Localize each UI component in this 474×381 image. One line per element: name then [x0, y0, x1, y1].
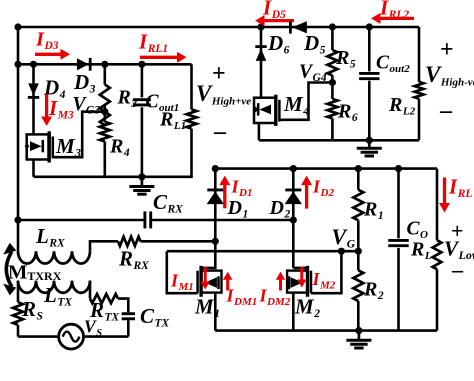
- node left frame / D3 rail: [14, 61, 21, 68]
- wire R6 to bus: [331, 118, 334, 140]
- node D4 branch: [30, 61, 37, 68]
- mosfet M2 body box: [287, 271, 307, 293]
- node R1 top: [355, 165, 362, 172]
- wire low bottom bus: [215, 329, 437, 332]
- node D6 top: [257, 23, 264, 30]
- wire M1 gate loop: [167, 251, 198, 293]
- wire RS to bottom: [17, 325, 20, 337]
- ground symbol low: [358, 331, 361, 340]
- node ground junction TR: [366, 137, 373, 144]
- wire TX bottom right: [84, 335, 129, 338]
- wire CRX rail left: [18, 219, 144, 222]
- mosfet M2 body diode: [291, 277, 303, 288]
- mosfet M2 channel bar: [306, 266, 309, 297]
- node left frame / CRX rail: [14, 216, 21, 223]
- resistor RL1: [187, 109, 197, 128]
- resistor RS: [13, 302, 23, 325]
- node Co top: [395, 165, 402, 172]
- wire LTX right to RTX: [89, 281, 92, 299]
- mosfet M1 drain jog: [201, 267, 215, 270]
- wire low top bus: [215, 167, 437, 170]
- mosfet M4 bulk mark: [253, 107, 258, 113]
- resistor R2: [353, 270, 363, 301]
- wire R3 upper lead: [104, 64, 107, 84]
- mosfet M4 body diode: [259, 105, 271, 115]
- mosfet M3 body diode: [30, 141, 42, 151]
- current arrow IM3: [45, 94, 48, 119]
- wire D2 leg upper: [292, 169, 295, 268]
- current arrow IDM1 up: [226, 278, 229, 291]
- node D1 top: [212, 165, 219, 172]
- wire D6 branch: [260, 27, 263, 99]
- wire M2 gate loop: [311, 251, 341, 293]
- svg-text:+: +: [212, 61, 226, 87]
- source Vs: [59, 324, 84, 349]
- inductor LTX: [18, 281, 90, 293]
- diode D4: [28, 83, 39, 95]
- wire Cout1 lower: [141, 107, 144, 177]
- resistor R3: [100, 85, 110, 126]
- mosfet M4 body box: [254, 98, 276, 123]
- capacitor Cout1: [133, 98, 151, 101]
- wire RL leg upper: [436, 169, 439, 241]
- svg-text:–: –: [439, 98, 453, 124]
- svg-text:–: –: [451, 257, 464, 282]
- mosfet M3 channel bar: [48, 131, 51, 162]
- node Cout1 top: [138, 61, 145, 68]
- wire R3-R4 link: [104, 105, 107, 122]
- resistor R4: [100, 122, 110, 142]
- node VG (R1-R2 junction): [355, 248, 362, 255]
- resistor R6: [327, 99, 337, 118]
- mosfet M2 gate bar: [310, 271, 313, 294]
- current arrow ID2: [305, 183, 308, 209]
- wire M2 source: [292, 293, 295, 331]
- resistor RTX: [90, 294, 118, 303]
- wire RL1 upper: [190, 64, 193, 109]
- node VG4 (R5-R6 junction): [329, 79, 336, 86]
- resistor R1: [353, 190, 363, 221]
- wire TX bottom left: [18, 335, 59, 338]
- mosfet M1 body box: [201, 271, 221, 293]
- wire LTX left to RS: [17, 281, 20, 303]
- wire D3 rail: [18, 63, 192, 66]
- capacitor CRX: [143, 211, 146, 228]
- node M2 gate tap: [338, 248, 345, 255]
- wire D1 leg upper: [214, 169, 217, 270]
- wire R1-R2 link: [357, 220, 360, 270]
- wire Co upper: [397, 169, 400, 239]
- wire RL2 upper: [418, 27, 421, 82]
- diode D1: [207, 188, 223, 191]
- node ground junction low: [355, 327, 362, 334]
- capacitor Co: [388, 239, 408, 242]
- ground symbol TL: [141, 177, 144, 186]
- node R3 top: [101, 61, 108, 68]
- mosfet M1 gate bar: [196, 271, 199, 294]
- current arrow IRL2: [378, 17, 414, 20]
- mosfet M4 channel bar: [274, 95, 277, 126]
- capacitor CTX: [122, 312, 135, 315]
- wire M3 gate to VG3 node: [53, 112, 105, 158]
- current arrow ID1: [223, 183, 226, 209]
- wire R1 upper lead: [357, 169, 360, 190]
- current arrow IRL1: [140, 56, 179, 59]
- diode D5: [292, 21, 307, 33]
- mosfet M3 bulk mark: [25, 143, 30, 149]
- mosfet M3 gate bar: [52, 137, 55, 159]
- wire top bus (high side input): [18, 26, 419, 29]
- svg-text:+: +: [440, 37, 454, 63]
- node R5 top: [329, 23, 336, 30]
- wire bottom bus top-left: [34, 176, 192, 179]
- inductor LRX: [18, 251, 90, 263]
- resistor RL2: [415, 82, 424, 99]
- diode D6: [256, 49, 267, 61]
- ground symbol TR: [368, 140, 371, 147]
- capacitor Cout2: [359, 72, 379, 75]
- wire R2 to bus: [357, 301, 360, 331]
- wire M1 source: [214, 293, 217, 331]
- mosfet M1 body diode: [205, 277, 217, 288]
- resistor RL: [433, 240, 442, 269]
- wire RL leg lower: [436, 269, 439, 330]
- current arrow ID3: [35, 53, 63, 56]
- svg-text:–: –: [213, 119, 227, 145]
- resistor R5: [327, 50, 337, 75]
- wire VG rail: [167, 250, 358, 253]
- wire D4 branch: [32, 64, 35, 135]
- wire Cout1 upper: [141, 64, 144, 97]
- node RRX to D1 leg: [212, 238, 219, 245]
- mutual coupling arrow MTXRX: [6, 252, 12, 287]
- wire M3 source to bus: [32, 160, 35, 177]
- mosfet M1 channel bar: [199, 266, 202, 297]
- current arrow IM1 down: [204, 267, 207, 284]
- wire RL2 lower: [418, 99, 421, 141]
- node Cout2 top: [366, 23, 373, 30]
- current arrow ID5: [262, 19, 294, 22]
- wire R5 upper lead: [331, 27, 334, 50]
- node top-left corner: [14, 23, 21, 30]
- wire RL1 lower: [190, 129, 193, 179]
- diode D3: [77, 58, 89, 70]
- wire M4 gate to VG4 node: [279, 83, 332, 120]
- wire R4 to bus: [104, 142, 107, 177]
- wire bottom bus top-right: [259, 139, 419, 142]
- wire RRX to D1 leg: [141, 240, 216, 243]
- mosfet M3 body box: [27, 134, 49, 159]
- mosfet M4 gate bar: [278, 100, 281, 122]
- wire left frame vertical: [17, 26, 20, 252]
- wire CRX rail right: [152, 219, 293, 222]
- node D2 top: [290, 165, 297, 172]
- wire Co lower: [397, 248, 400, 331]
- diode D2: [285, 188, 301, 191]
- wire M4 source to bus: [258, 123, 261, 140]
- current arrow IRL: [443, 178, 446, 206]
- resistor RRX: [118, 237, 141, 246]
- wire Cout2 upper: [368, 27, 371, 71]
- node VG3 (R3-R4 junction): [101, 108, 108, 115]
- node ground junction TL: [138, 173, 145, 180]
- current arrow IDM2 up: [279, 278, 282, 291]
- wire R5-R6 link: [331, 75, 334, 99]
- node CRX to D2 leg: [290, 216, 297, 223]
- wire LRX to RRX: [90, 241, 118, 251]
- current arrow IM2 down: [300, 267, 303, 282]
- wire RTX to CTX: [118, 299, 128, 313]
- wire CTX to bottom: [127, 320, 130, 336]
- wire Cout2 lower: [368, 81, 371, 141]
- mosfet M2 drain jog: [293, 267, 307, 270]
